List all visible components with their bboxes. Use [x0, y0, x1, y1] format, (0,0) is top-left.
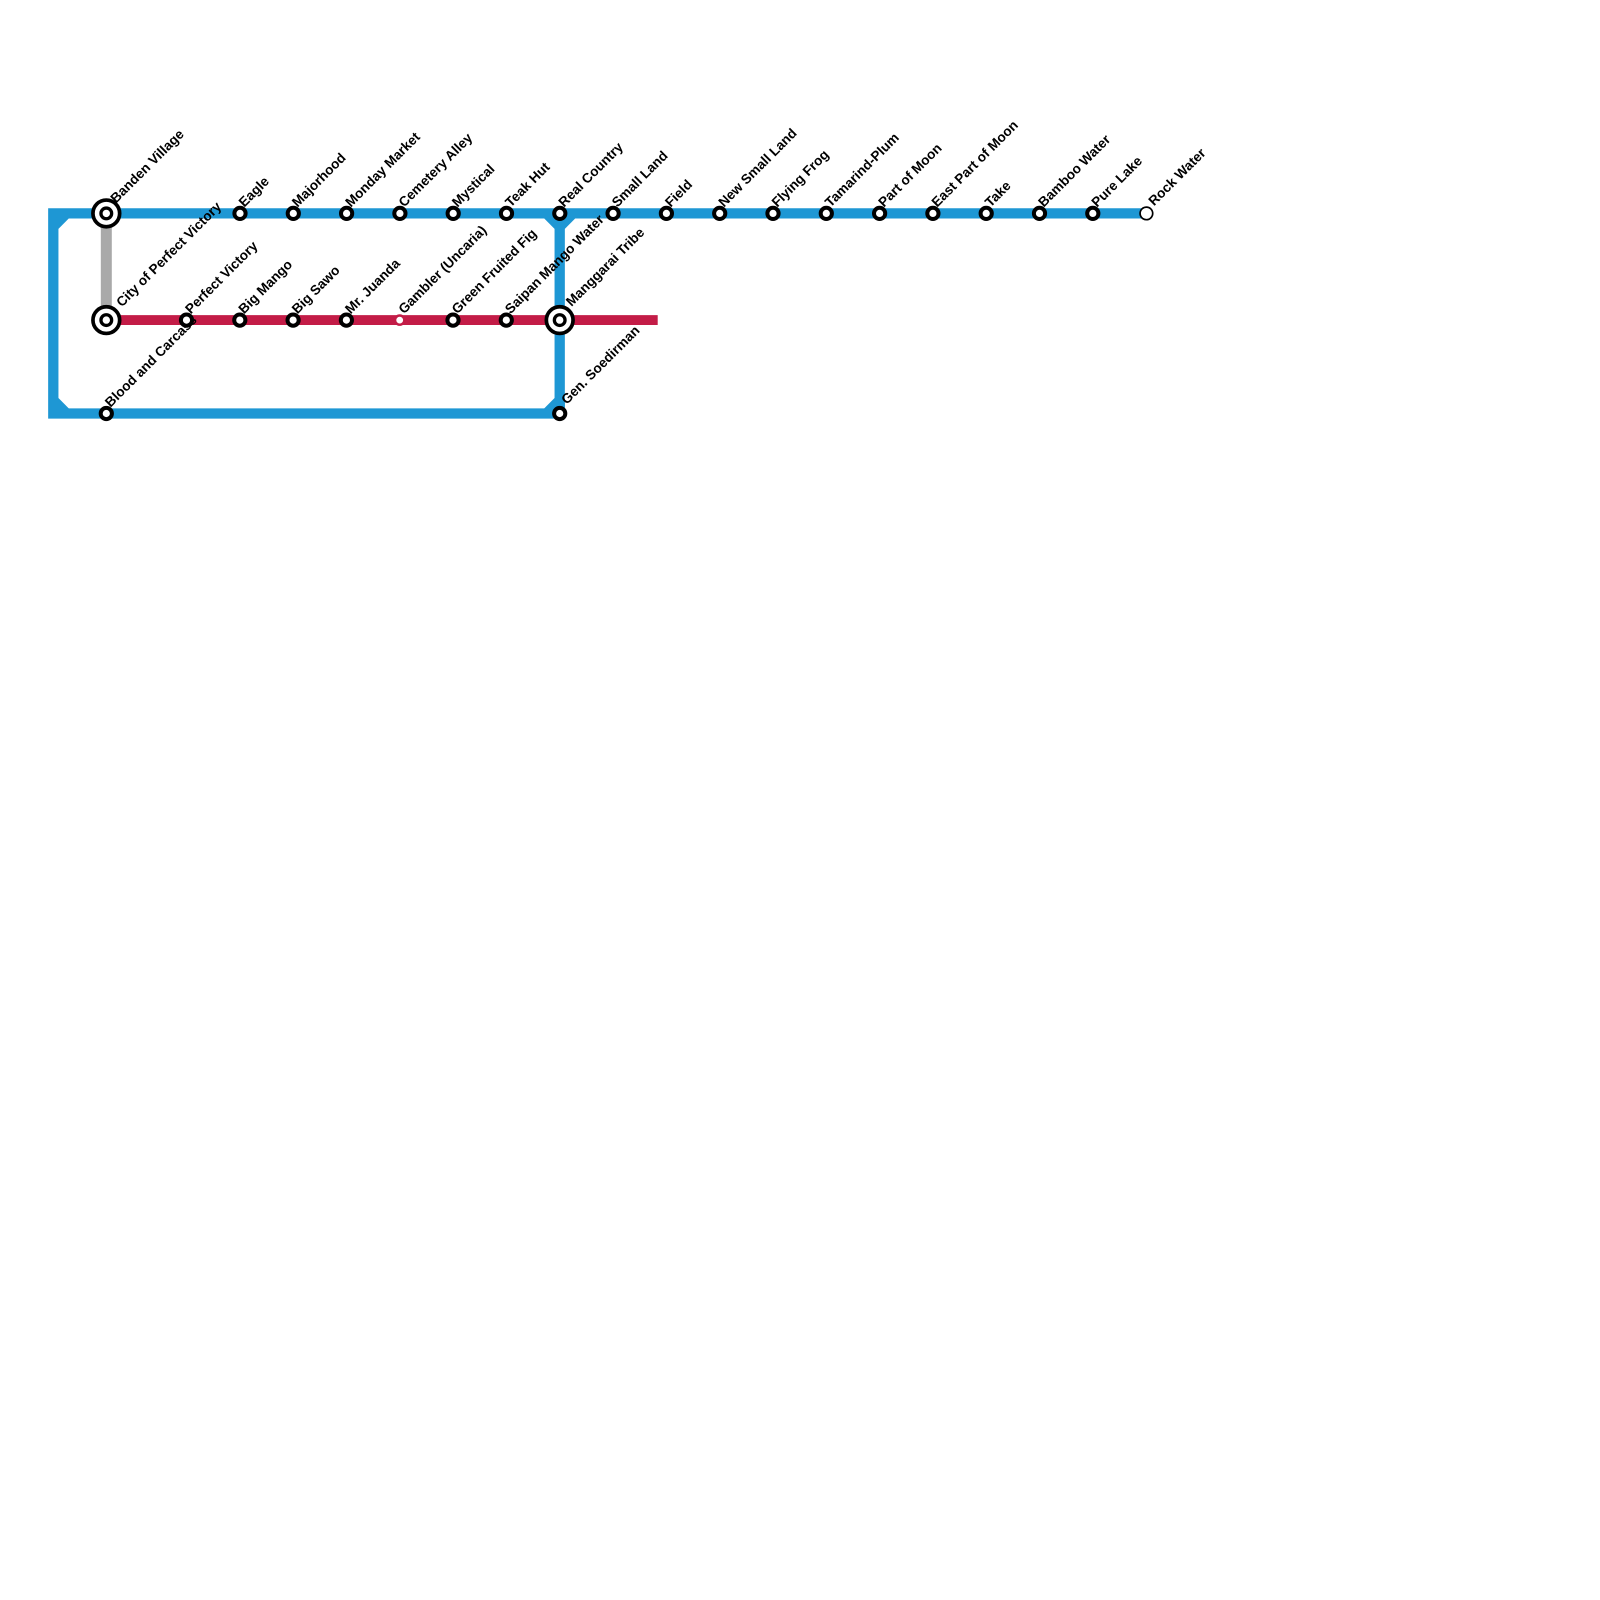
station Mr. Juanda — [341, 315, 352, 326]
station Majorhood — [288, 208, 299, 219]
station Big Sawo — [288, 315, 299, 326]
station Real Country — [554, 208, 565, 219]
svg-text:Mr. Juanda: Mr. Juanda — [342, 255, 403, 316]
blue corner fillet top-left — [57, 217, 69, 229]
station East Part of Moon — [927, 208, 938, 219]
station Mystical — [448, 208, 459, 219]
blue corner fillet bottom-right — [544, 398, 565, 410]
station Field — [661, 208, 672, 219]
blue line loop: top row, left side, bottom row, right riser — [53, 213, 1146, 413]
station Part of Moon — [874, 208, 885, 219]
station Pure Lake — [1087, 208, 1098, 219]
station Green Fruited Fig — [447, 315, 458, 326]
station Flying Frog — [767, 208, 778, 219]
station Gambler (Uncaria) — [395, 316, 404, 325]
blue corner fillet bottom-left — [57, 398, 69, 410]
svg-text:Gambler (Uncaria): Gambler (Uncaria) — [395, 223, 489, 317]
station Monday Market — [341, 208, 352, 219]
svg-text:Pure Lake: Pure Lake — [1089, 153, 1146, 210]
station Take — [981, 208, 992, 219]
station City of Perfect Victory (interchange) — [93, 307, 120, 334]
station Cemetery Alley — [394, 208, 405, 219]
station Saipan Mango Water — [501, 315, 512, 326]
station Gen. Soedirman — [554, 408, 565, 419]
gray connector line: Banden Village to City of Perfect Victory — [101, 213, 112, 320]
svg-text:Big Mango: Big Mango — [236, 257, 296, 317]
station Small Land — [608, 208, 619, 219]
station Big Mango — [234, 315, 245, 326]
svg-text:Banden Village: Banden Village — [108, 126, 188, 206]
svg-text:Majorhood: Majorhood — [289, 150, 349, 210]
svg-text:Rock Water: Rock Water — [1145, 145, 1209, 209]
station Perfect Victory — [181, 315, 192, 326]
station Eagle — [234, 208, 245, 219]
svg-text:Eagle: Eagle — [236, 173, 273, 210]
red line: City of Perfect Victory to east terminus — [106, 315, 657, 325]
svg-text:Mystical: Mystical — [449, 161, 498, 210]
station Blood and Carcass — [101, 408, 112, 419]
station Manggarai Tribe (interchange) — [546, 307, 573, 334]
station New Small Land — [714, 208, 725, 219]
svg-text:Take: Take — [982, 178, 1014, 210]
svg-text:East Part of Moon: East Part of Moon — [929, 118, 1021, 210]
blue junction fillets at Real Country — [544, 217, 575, 229]
svg-text:Gen. Soedirman: Gen. Soedirman — [558, 323, 642, 407]
svg-text:Teak Hut: Teak Hut — [502, 159, 553, 210]
station Tamarind-Plum — [821, 208, 832, 219]
station Rock Water (terminus) — [1140, 207, 1153, 220]
svg-text:Field: Field — [662, 177, 695, 210]
station Banden Village (interchange) — [93, 200, 120, 227]
station Teak Hut — [501, 208, 512, 219]
svg-text:Big Sawo: Big Sawo — [289, 263, 343, 317]
station Bamboo Water — [1034, 208, 1045, 219]
